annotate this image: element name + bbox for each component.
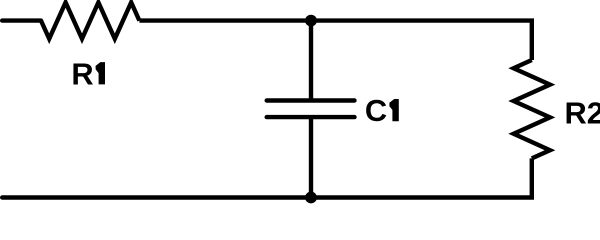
svg-text:R2: R2 xyxy=(565,96,600,131)
wire: top-left lead into R1 xyxy=(2,18,41,22)
svg-text:C: C xyxy=(365,93,387,128)
wire: bottom lead of C1 from bottom plate to node B xyxy=(309,117,313,197)
wire: top lead of C1 from node A down to top plate xyxy=(309,21,313,101)
wire: top rail from node A to top-right corner down to R2 xyxy=(311,21,532,60)
capacitor C1 bottom plate xyxy=(267,115,355,119)
resistor R2 xyxy=(514,60,550,158)
node B (bottom junction dot) xyxy=(305,192,317,204)
node A (top junction dot) xyxy=(305,15,317,27)
wire: bottom rail from node B to left edge xyxy=(2,195,311,199)
wire: top rail from R1 to node A xyxy=(139,18,311,22)
resistor R1 xyxy=(41,2,139,38)
wire: from R2 down to bottom-right corner then left to node B xyxy=(311,158,532,197)
capacitor C1 top plate xyxy=(267,98,355,102)
svg-text:R: R xyxy=(71,57,93,92)
